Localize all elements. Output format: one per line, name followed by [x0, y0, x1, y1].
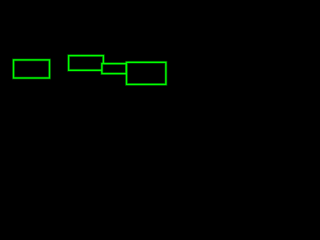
box 2 (upper middle) [69, 56, 104, 71]
box 3 (middle, drawn over box 2) [102, 64, 127, 74]
box 1 (left) [14, 60, 50, 78]
box 4 (bottom right, drawn over box 3) [127, 62, 166, 84]
